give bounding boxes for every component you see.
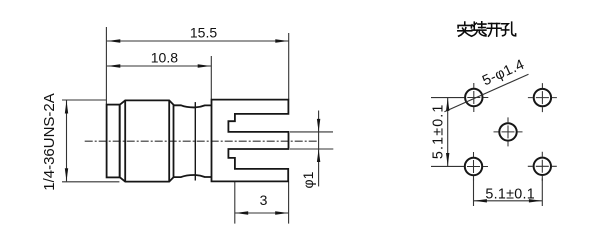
svg-text:10.8: 10.8 <box>151 50 178 66</box>
svg-text:3: 3 <box>260 192 268 208</box>
svg-text:15.5: 15.5 <box>190 25 217 41</box>
svg-text:5-φ1.4: 5-φ1.4 <box>480 57 527 90</box>
svg-text:φ1: φ1 <box>300 171 316 188</box>
svg-text:5.1±0.1: 5.1±0.1 <box>485 187 535 203</box>
svg-text:1/4-36UNS-2A: 1/4-36UNS-2A <box>41 93 58 191</box>
svg-text:5.1±0.1: 5.1±0.1 <box>431 103 447 159</box>
